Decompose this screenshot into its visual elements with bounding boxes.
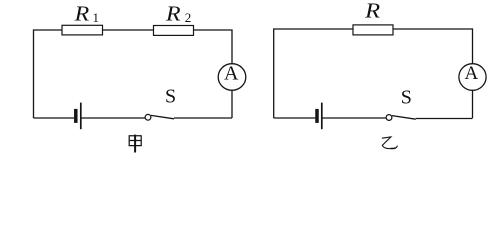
svg-text:A: A bbox=[465, 63, 479, 84]
label R2 bbox=[165, 2, 191, 26]
switch S2 (right) bbox=[386, 115, 416, 121]
wire: ammeter to bottom-right corner bbox=[231, 90, 233, 118]
wire: bottom-left to battery bbox=[34, 117, 75, 119]
svg-text:S: S bbox=[165, 86, 176, 108]
svg-text:2: 2 bbox=[185, 10, 192, 25]
svg-text:R: R bbox=[364, 0, 380, 23]
label 甲 bbox=[129, 135, 141, 153]
wire: battery to switch (right) bbox=[323, 117, 387, 119]
label 乙 bbox=[382, 137, 398, 149]
wire: switch to bottom-right corner bbox=[174, 117, 232, 119]
battery B1 (left) bbox=[76, 103, 81, 130]
wire: left circuit top-left segment bbox=[34, 30, 63, 118]
wire: switch to bottom-right corner (right) bbox=[416, 118, 473, 120]
wire: battery to switch bbox=[82, 117, 146, 119]
wire: R to top-right corner down to ammeter bbox=[393, 29, 473, 64]
wire: bottom-left to battery (right) bbox=[274, 117, 316, 119]
resistor R bbox=[353, 25, 393, 35]
svg-text:1: 1 bbox=[93, 10, 100, 25]
svg-text:A: A bbox=[224, 63, 239, 85]
wire: ammeter to bottom-right corner bbox=[472, 90, 474, 118]
svg-text:R: R bbox=[74, 2, 90, 26]
resistor R2 bbox=[154, 26, 194, 36]
wire: right circuit top-left segment bbox=[274, 29, 353, 118]
battery B2 (right) bbox=[317, 103, 322, 130]
resistor R1 bbox=[62, 25, 103, 35]
wire: R2 to top-right corner down to ammeter bbox=[194, 30, 233, 64]
ammeter U2 (right) bbox=[459, 64, 486, 91]
wire: between R1 and R2 bbox=[103, 29, 154, 31]
ammeter U1 (left) bbox=[218, 64, 246, 91]
label R1 bbox=[74, 2, 99, 26]
svg-text:S: S bbox=[401, 87, 412, 109]
svg-text:R: R bbox=[165, 2, 181, 26]
switch S1 (left) bbox=[145, 114, 174, 120]
